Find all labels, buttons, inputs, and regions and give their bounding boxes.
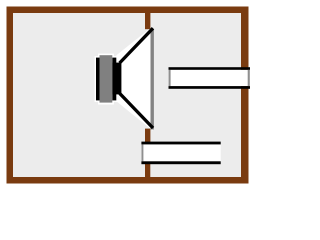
port tube P1 (upper, through right wall) : interior: [169, 70, 251, 86]
cone lower edge: [120, 93, 153, 128]
baffle bottom stub: [145, 164, 150, 178]
baffle middle stub: [145, 129, 150, 143]
cabinet wall (brown outer box): [7, 7, 249, 184]
port P2 upper wall: [141, 142, 220, 145]
cone upper edge: [120, 28, 153, 63]
port P1 lower wall: [169, 86, 251, 89]
driver rear plate (black): [96, 58, 100, 101]
baffle top stub: [145, 13, 150, 29]
driver white outline backdrop (magnet): [98, 54, 114, 105]
driver front plate (black): [112, 58, 116, 101]
port tube P2 (lower, through baffle) : interior: [141, 144, 220, 161]
port P1 right end cap: [248, 70, 250, 86]
driver mounting ring (gray strip in baffle opening): [151, 29, 154, 130]
driver voice coil block (black): [112, 63, 121, 95]
port P1 left end cap: [169, 70, 171, 86]
driver white outline backdrop (plates): [95, 56, 118, 102]
port P1 upper wall: [169, 67, 251, 70]
driver magnet (gray): [100, 55, 113, 102]
cone interior (white): [116, 26, 152, 131]
port P2 left end cap: [142, 144, 144, 161]
cabinet interior (air space): [13, 13, 241, 177]
port P2 lower wall: [141, 161, 220, 164]
